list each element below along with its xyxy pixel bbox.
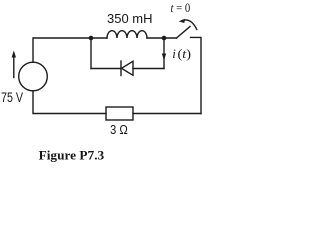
diode D1 cathode bar: [120, 61, 122, 76]
svg-text:3 Ω: 3 Ω: [110, 122, 128, 137]
wire bottom left (resistor to corner and up to source): [33, 91, 106, 114]
current arrowhead i(t): [162, 54, 166, 61]
svg-text:350 mH: 350 mH: [107, 11, 153, 26]
svg-text:(t): (t): [178, 46, 192, 61]
voltage source V1 circle: [19, 62, 48, 91]
diode D1 triangle: [122, 61, 134, 75]
wire bottom right (corner to resistor): [133, 113, 201, 115]
voltage source reference arrowhead: [12, 51, 16, 58]
wire right vertical of diode branch (node B down): [163, 38, 165, 69]
switch actuation arc arrow: [182, 20, 197, 30]
node B junction (i(t) branch, top-right): [162, 36, 167, 41]
switch arc arrowhead: [179, 19, 186, 23]
inductor L1 coil (350 mH): [107, 31, 147, 38]
diode branch wire right horizontal: [133, 68, 164, 70]
wire left-top vertical (source top to top-left corner): [33, 38, 107, 62]
wire switch right contact to top-right corner: [191, 37, 202, 113]
wire top from inductor to switch pivot: [147, 37, 177, 39]
resistor R1 box (3 ohm): [106, 107, 133, 120]
diode branch wire left vertical: [90, 38, 92, 69]
svg-text:Figure P7.3: Figure P7.3: [39, 148, 105, 162]
node A junction (diode branch, top-left): [89, 36, 94, 41]
svg-text:t = 0: t = 0: [171, 0, 191, 15]
voltage source reference arrow (shaft): [13, 57, 15, 78]
svg-text:i: i: [172, 46, 176, 61]
svg-text:75 V: 75 V: [1, 90, 23, 105]
diode branch wire left horizontal: [91, 68, 121, 70]
switch SW1 blade: [177, 27, 191, 39]
